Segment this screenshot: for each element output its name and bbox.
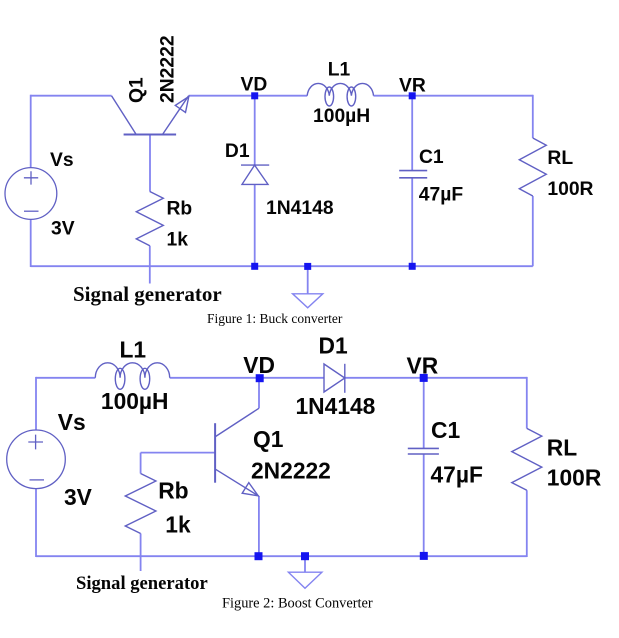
svg-text:47µF: 47µF (419, 185, 464, 206)
wire fig1 top rail: corner to Q1 collector (30, 95, 111, 97)
wire fig1 node VR to top-right corner (412, 95, 533, 97)
svg-text:D1: D1 (225, 141, 250, 162)
wire fig1 Q1 emitter to node VD (189, 95, 255, 97)
svg-text:Vs: Vs (50, 150, 74, 171)
svg-text:Q1: Q1 (127, 77, 148, 103)
wire fig2 Rb top lead (140, 453, 142, 474)
svg-text:L1: L1 (120, 337, 147, 363)
resistor RL (fig2) (512, 428, 542, 490)
wire fig1 Rb bottom through rail to signal generator stub (149, 246, 151, 284)
wire fig2 left vertical down to Vs (35, 377, 37, 430)
wire fig2 bottom rail (36, 555, 527, 557)
svg-text:Figure 1: Buck converter: Figure 1: Buck converter (207, 311, 343, 326)
wire fig2 D1 cathode to node VR (345, 377, 424, 379)
wire fig2 Vs bottom to bottom-left corner (35, 489, 37, 557)
wire fig1 left vertical: corner down to Vs top (30, 95, 32, 168)
svg-text:3V: 3V (64, 484, 93, 510)
wire fig2 base wire to Q1 (141, 452, 216, 454)
wire fig1 ground stub (307, 266, 309, 293)
ground (fig1) (293, 294, 323, 308)
wire fig2 L1 to node VD (170, 377, 260, 379)
inductor L1 (fig2) (95, 363, 169, 390)
wire fig1 RL bottom to bottom rail (532, 196, 534, 266)
wire fig2 right vertical to RL top (526, 377, 528, 429)
inductor L1 (fig1) (307, 83, 373, 106)
svg-text:100R: 100R (547, 465, 602, 491)
diode D1 (fig1) (241, 165, 269, 184)
voltage source Vs (fig1) (5, 168, 57, 220)
svg-text:RL: RL (547, 148, 573, 169)
svg-text:VD: VD (241, 75, 268, 96)
resistor Rb (fig2) (125, 474, 156, 534)
wire fig2 C1 bottom lead to bottom rail (423, 454, 425, 556)
svg-text:100R: 100R (547, 179, 593, 200)
svg-text:100µH: 100µH (313, 106, 370, 127)
svg-text:RL: RL (547, 435, 577, 461)
junction fig1 bottom rail at C1 (409, 263, 416, 270)
svg-text:2N2222: 2N2222 (158, 35, 179, 103)
svg-text:3V: 3V (51, 219, 75, 240)
svg-text:VR: VR (407, 353, 439, 379)
svg-text:Signal generator: Signal generator (73, 282, 222, 306)
diode D1 (fig2) (324, 364, 345, 393)
wire fig2 Rb bottom through rail to signal generator stub (140, 534, 142, 572)
svg-text:Rb: Rb (167, 199, 193, 220)
svg-text:Figure 2: Boost Converter: Figure 2: Boost Converter (222, 596, 373, 612)
svg-text:Vs: Vs (58, 409, 86, 435)
wire fig2 Q1 emitter vertical to bottom rail (258, 496, 260, 556)
wire fig1 Q1 base down to Rb (149, 135, 151, 192)
wire fig1 node VD down to D1 cathode (254, 96, 256, 165)
svg-text:2N2222: 2N2222 (251, 458, 331, 484)
transistor Q1 (fig1) (112, 96, 189, 135)
svg-text:100µH: 100µH (101, 388, 169, 414)
junction fig2 bottom rail at ground (301, 552, 309, 560)
wire fig1 Vs bottom to bottom-left corner (30, 219, 32, 267)
wire fig2 RL bottom to bottom rail (526, 490, 528, 557)
ground (fig2) (288, 572, 322, 588)
capacitor C1 (fig2) (408, 448, 439, 454)
svg-text:Rb: Rb (158, 478, 188, 504)
svg-text:C1: C1 (419, 147, 444, 168)
transistor Q1 (fig2) (215, 408, 259, 496)
svg-text:Signal generator: Signal generator (76, 573, 208, 594)
wire fig2 ground stub (304, 556, 306, 572)
svg-text:1k: 1k (165, 512, 191, 538)
wire fig2 top rail: corner to L1 (36, 377, 95, 379)
wire fig1 C1 top lead from node VR (411, 96, 413, 171)
svg-text:47µF: 47µF (431, 462, 483, 488)
wire fig1 node VD to L1 (255, 95, 308, 97)
junction fig2 bottom rail at C1 (420, 552, 428, 560)
wire fig1 L1 to node VR (374, 95, 413, 97)
voltage source Vs (fig2) (7, 430, 66, 489)
resistor Rb (fig1) (136, 192, 163, 246)
wire fig1 bottom rail (31, 265, 533, 267)
node VR junction (fig1) (409, 92, 416, 99)
junction fig2 bottom rail at Q1 emitter (255, 552, 263, 560)
junction fig1 bottom rail at D1 (251, 263, 258, 270)
svg-text:VR: VR (399, 75, 426, 96)
svg-text:L1: L1 (328, 60, 351, 81)
capacitor C1 (fig1) (399, 171, 427, 178)
wire fig2 node VD to D1 anode (260, 377, 324, 379)
resistor RL (fig1) (519, 138, 546, 196)
svg-text:1k: 1k (167, 230, 189, 251)
wire fig1 D1 anode down to bottom rail (254, 185, 256, 266)
svg-text:D1: D1 (319, 333, 348, 359)
node VR junction (fig2) (420, 374, 428, 382)
wire fig2 C1 top lead from node VR (423, 378, 425, 449)
node VD junction (fig2) (256, 374, 264, 382)
wire fig2 node VR to top-right corner (424, 377, 527, 379)
junction fig1 bottom rail at ground (304, 263, 311, 270)
node VD junction (fig1) (251, 92, 258, 99)
wire fig2 Q1 collector vertical to node VD (258, 378, 260, 409)
svg-text:1N4148: 1N4148 (296, 393, 376, 419)
wire fig1 right vertical to RL top (532, 95, 534, 138)
svg-text:Q1: Q1 (253, 426, 284, 452)
svg-text:1N4148: 1N4148 (266, 198, 334, 219)
svg-text:C1: C1 (431, 417, 460, 443)
wire fig1 C1 bottom lead to bottom rail (411, 178, 413, 266)
svg-text:VD: VD (243, 352, 275, 378)
